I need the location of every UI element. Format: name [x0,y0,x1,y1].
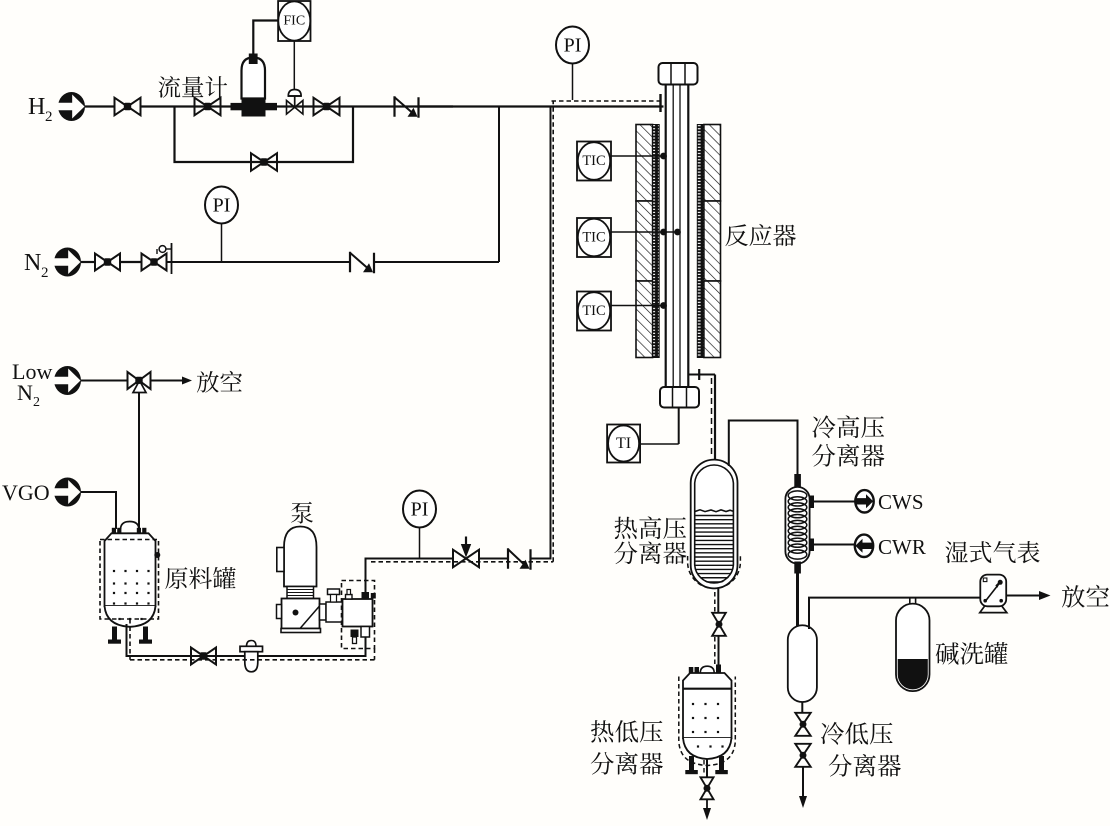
svg-text:TIC: TIC [582,153,605,169]
svg-text:VGO: VGO [2,480,50,505]
svg-text:PI: PI [411,499,429,521]
svg-text:PI: PI [564,35,582,57]
svg-text:TIC: TIC [582,303,605,319]
svg-text:2: 2 [41,265,49,281]
svg-text:PI: PI [213,195,231,217]
svg-text:FIC: FIC [283,14,305,29]
svg-text:2: 2 [33,395,40,410]
svg-text:2: 2 [45,109,53,125]
svg-text:H: H [28,94,45,120]
svg-text:TI: TI [616,435,631,452]
svg-text:N: N [17,380,33,405]
svg-text:TIC: TIC [582,230,605,246]
svg-text:N: N [24,250,41,276]
svg-text:CWS: CWS [878,490,924,514]
svg-text:CWR: CWR [878,535,926,559]
